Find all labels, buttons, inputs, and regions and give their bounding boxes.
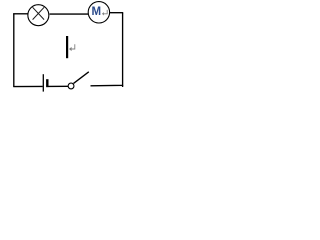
switch S1 lever [74, 72, 89, 84]
wire left side [13, 13, 15, 87]
formatting mark: return arrow at caret [71, 44, 75, 49]
wire bottom-left segment [13, 85, 42, 87]
formatting mark: return arrow beside M [103, 10, 107, 14]
wire motor to top-right corner [110, 12, 124, 14]
lamp L1 circle [28, 5, 49, 26]
wire switch to bottom-right corner [91, 13, 123, 86]
switch S1 pivot circle [68, 83, 74, 89]
svg-text:M: M [91, 6, 101, 18]
wire lamp to motor [50, 13, 89, 15]
battery B1 long plate [42, 74, 44, 91]
wire battery to switch [49, 85, 69, 87]
battery B1 short thick plate [46, 79, 48, 87]
right wire overshoot below corner [122, 85, 124, 87]
motor U1 circle [88, 2, 109, 23]
wire top-left segment [13, 13, 28, 15]
lamp L1 cross [33, 7, 45, 19]
text caret bar [66, 36, 68, 58]
